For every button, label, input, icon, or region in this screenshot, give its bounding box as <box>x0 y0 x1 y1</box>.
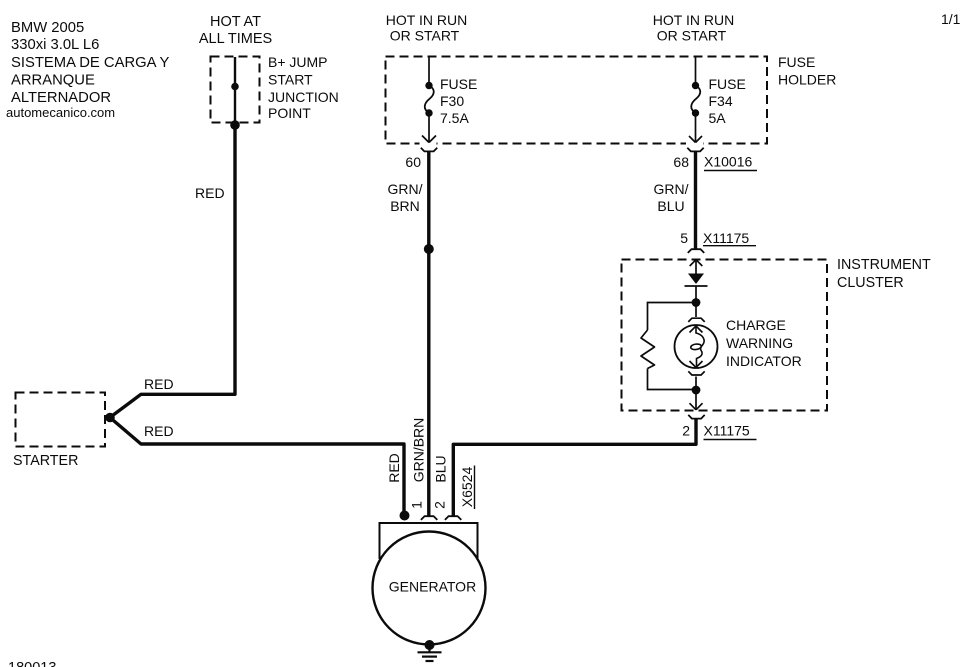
wire: diode to junction <box>695 286 697 302</box>
svg-text:START: START <box>268 72 313 88</box>
svg-text:2: 2 <box>432 501 448 509</box>
lamp bottom cup (opens up) <box>688 371 704 375</box>
wire: junction to exit pin <box>695 390 697 410</box>
wire: feed into fuse F30 <box>428 57 430 84</box>
connector pin 60 arrow (male) <box>422 136 436 143</box>
connector X11175 pin 5 cup (female, opens down) <box>688 249 704 253</box>
connector X11175 pin 2 arrow (male, points down) <box>690 403 703 410</box>
charge warning indicator lamp circle <box>675 325 718 368</box>
svg-text:HOT IN RUN: HOT IN RUN <box>653 12 734 28</box>
svg-text:ALTERNADOR: ALTERNADOR <box>11 90 111 106</box>
svg-text:X11175: X11175 <box>703 230 749 246</box>
svg-text:F34: F34 <box>709 93 733 109</box>
node dot at starter terminal <box>105 413 115 423</box>
svg-text:1: 1 <box>409 501 425 509</box>
connector X10016 pin 68 cup (female) <box>687 148 703 152</box>
ground node dot on generator <box>425 640 435 650</box>
connector X10016 pin 68 arrow (male) <box>689 136 702 143</box>
svg-text:BLU: BLU <box>433 455 449 482</box>
resistor element <box>641 330 655 369</box>
wire RED: B+ junction down and left to starter node <box>111 124 236 417</box>
connector X6524 pin 1 cup (female, opens up) <box>421 516 437 520</box>
connector pin 60 cup (female) <box>421 148 437 152</box>
label B+ JUMP START JUNCTION POINT <box>268 54 339 121</box>
resistor branch wire (top) <box>648 303 697 331</box>
svg-text:60: 60 <box>405 154 421 170</box>
svg-text:WARNING: WARNING <box>726 335 793 351</box>
generator connector X6524 housing <box>380 523 478 558</box>
instrument cluster box <box>622 260 828 411</box>
svg-text:INSTRUMENT: INSTRUMENT <box>837 257 931 273</box>
connector X11175 pin 2 cup (female, opens up) <box>688 415 704 419</box>
svg-text:CHARGE: CHARGE <box>726 317 786 333</box>
svg-text:OR START: OR START <box>390 28 460 44</box>
svg-text:automecanico.com: automecanico.com <box>6 105 115 120</box>
svg-text:RED: RED <box>386 453 402 483</box>
svg-text:SISTEMA DE CARGA Y: SISTEMA DE CARGA Y <box>11 55 170 71</box>
svg-text:F30: F30 <box>440 93 464 109</box>
wire: fuse F30 to connector pin 60 <box>428 115 430 142</box>
svg-text:GENERATOR: GENERATOR <box>389 579 476 595</box>
svg-text:FUSE: FUSE <box>778 54 815 70</box>
node dot at generator B+ stud <box>400 511 410 521</box>
svg-text:RED: RED <box>195 185 225 201</box>
wire: fuse F34 to connector X10016 pin 68 <box>695 115 697 142</box>
svg-text:X11175: X11175 <box>704 423 750 439</box>
svg-text:HOT IN RUN: HOT IN RUN <box>386 12 467 28</box>
wire RED: starter node to generator B+ terminal <box>111 418 405 514</box>
fuse F34 element <box>692 82 699 89</box>
label FUSE F30 7.5A <box>440 76 477 126</box>
junction dot (top of lamp/resistor parallel pair) <box>692 298 701 307</box>
ground symbol <box>418 645 442 661</box>
svg-text:BRN: BRN <box>390 198 420 214</box>
dash gaps at fuse holder exits <box>420 141 437 146</box>
svg-text:HOT AT: HOT AT <box>210 14 261 30</box>
svg-text:B+ JUMP: B+ JUMP <box>268 54 328 70</box>
svg-text:5: 5 <box>680 230 688 246</box>
svg-text:FUSE: FUSE <box>440 76 477 92</box>
svg-text:INDICATOR: INDICATOR <box>726 353 802 369</box>
lamp filament <box>696 326 704 368</box>
starter box <box>16 393 106 447</box>
label CHARGE WARNING INDICATOR <box>726 317 802 369</box>
generator body <box>373 532 486 645</box>
svg-text:ARRANQUE: ARRANQUE <box>11 73 95 89</box>
svg-text:180013: 180013 <box>8 660 56 667</box>
svg-text:X10016: X10016 <box>704 154 752 170</box>
splice junction dot on GRN/BRN wire <box>424 244 434 254</box>
junction dot at B+ box bottom (node B+) <box>230 120 240 130</box>
lamp top cup (opens down) <box>688 318 704 322</box>
svg-text:GRN/BRN: GRN/BRN <box>411 418 427 483</box>
svg-text:GRN/: GRN/ <box>388 181 423 197</box>
svg-text:5A: 5A <box>709 110 727 126</box>
wire: pin 5 to diode <box>695 260 697 274</box>
label FUSE F34 5A <box>709 76 746 126</box>
connector X11175 pin 5 arrow (male, points up) <box>690 260 703 266</box>
wire GRN/BRN: fuse F30 to generator pin 1 <box>427 151 430 516</box>
svg-text:ALL TIMES: ALL TIMES <box>199 31 272 47</box>
svg-text:BMW 2005: BMW 2005 <box>11 20 84 36</box>
wire: junction down to lamp connector <box>695 302 697 317</box>
svg-text:STARTER: STARTER <box>13 453 78 469</box>
svg-text:2: 2 <box>682 423 690 439</box>
svg-text:HOLDER: HOLDER <box>778 72 836 88</box>
svg-text:X6524: X6524 <box>459 467 475 508</box>
svg-text:GRN/: GRN/ <box>654 181 689 197</box>
wire: feed into fuse F34 <box>695 57 697 84</box>
lamp bottom arrow (points down) <box>690 361 703 368</box>
fuse holder box <box>386 57 768 144</box>
svg-text:RED: RED <box>144 423 174 439</box>
svg-text:330xi 3.0L L6: 330xi 3.0L L6 <box>11 37 99 53</box>
svg-text:RED: RED <box>144 376 174 392</box>
wire GRN/BLU: X10016 to instrument cluster <box>694 151 697 249</box>
wire BLU: X11175 pin 2 to generator pin 2 <box>453 418 696 516</box>
connector X6524 pin 2 cup (female, opens up) <box>445 516 461 520</box>
svg-text:CLUSTER: CLUSTER <box>837 275 904 291</box>
resistor branch wire (bottom) <box>648 369 697 390</box>
svg-text:OR START: OR START <box>657 28 727 44</box>
svg-text:FUSE: FUSE <box>709 76 746 92</box>
lamp top arrow (points up) <box>690 326 703 333</box>
svg-text:7.5A: 7.5A <box>440 110 469 126</box>
wire: lamp to bottom junction <box>695 377 697 391</box>
svg-text:POINT: POINT <box>268 105 311 121</box>
junction dot (bottom of lamp/resistor pair) <box>692 386 701 395</box>
fuse F30 element <box>425 82 432 89</box>
svg-text:JUNCTION: JUNCTION <box>268 89 339 105</box>
B+ jump start junction point box <box>211 57 260 123</box>
svg-text:68: 68 <box>673 154 689 170</box>
svg-text:1/1: 1/1 <box>941 11 961 27</box>
junction dot inside B+ box <box>231 83 239 91</box>
title block text <box>6 20 170 120</box>
svg-text:BLU: BLU <box>657 198 684 214</box>
wire inside B+ junction box <box>234 57 236 122</box>
diode (cathode down) <box>688 274 704 285</box>
